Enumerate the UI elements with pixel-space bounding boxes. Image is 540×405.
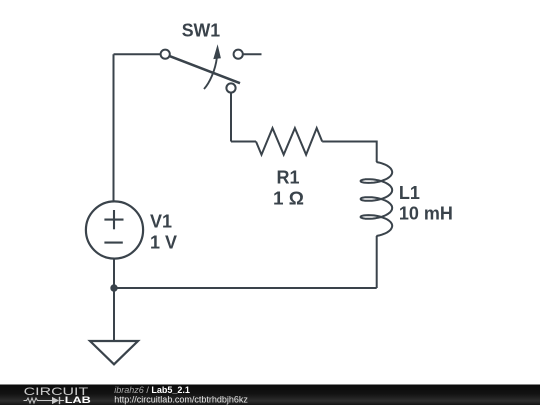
ground symbol [90, 341, 138, 364]
svg-text:L1: L1 [399, 183, 420, 203]
svg-text:1 V: 1 V [150, 232, 177, 252]
switch SW1 arrowhead [213, 44, 221, 59]
voltage source V1 circle [86, 201, 143, 258]
svg-text:SW1: SW1 [182, 20, 221, 40]
wire bottom horizontal [114, 287, 377, 289]
footer bar [0, 385, 540, 405]
svg-text:V1: V1 [150, 211, 172, 231]
svg-text:http://circuitlab.com/ctbtrhdb: http://circuitlab.com/ctbtrhdbjh6kz [114, 394, 248, 404]
switch SW1 lever [169, 56, 240, 83]
CircuitLab logo schematic squiggle [24, 397, 65, 404]
junction node dot [110, 284, 117, 291]
switch SW1 actuation arrow arc [204, 58, 217, 90]
resistor R1 [256, 128, 322, 155]
inductor L1 coil [361, 162, 393, 236]
svg-text:ibrahz6 / Lab5_2.1: ibrahz6 / Lab5_2.1 [114, 385, 190, 395]
V1 minus sign [104, 242, 122, 244]
V1 plus sign [104, 210, 123, 243]
wire switch throw right stub [244, 53, 262, 55]
wire resistor to inductor corner [322, 142, 377, 163]
switch SW1 pole terminal circle left [161, 50, 170, 59]
switch SW1 bottom terminal circle [226, 83, 235, 92]
wire switch to resistor [231, 141, 256, 143]
svg-text:1 Ω: 1 Ω [273, 188, 304, 208]
wire switch pole drop [230, 93, 232, 142]
wire left vertical rail [113, 54, 115, 201]
wire inductor bottom [376, 236, 378, 288]
svg-text:R1: R1 [276, 167, 299, 187]
wire ground drop [113, 288, 115, 341]
wire top-left horizontal [114, 53, 161, 55]
svg-text:LAB: LAB [65, 395, 91, 405]
svg-text:10 mH: 10 mH [399, 204, 453, 224]
switch SW1 throw terminal circle right [234, 50, 243, 59]
CircuitLab logo diode triangle [52, 397, 59, 404]
wire V1 bottom to junction [113, 259, 115, 289]
